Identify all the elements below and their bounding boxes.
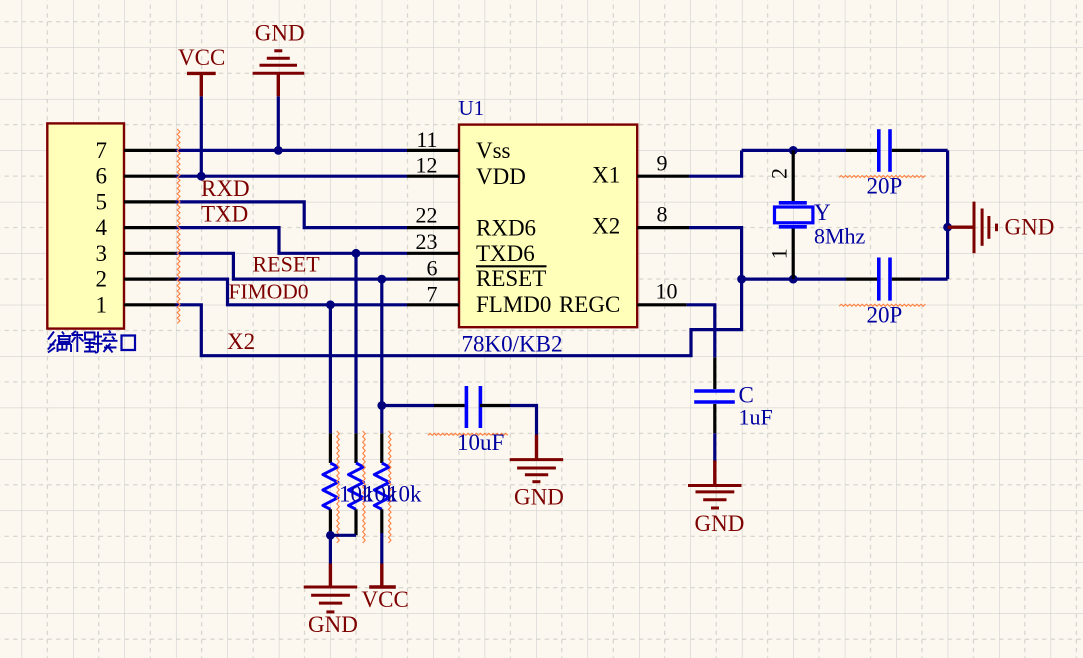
error squiggle R2 xyxy=(363,431,366,543)
error squiggle bottom 20P xyxy=(839,304,925,306)
U1 pin 9 stub X1 xyxy=(637,151,689,177)
U1 pin 8 stub X2 xyxy=(637,202,689,228)
connector pin 4 xyxy=(96,215,176,240)
wire 10uF right to GND xyxy=(510,406,537,435)
svg-text:GND: GND xyxy=(695,511,745,536)
capacitor 10uF plates xyxy=(466,386,480,428)
wire top rail left xyxy=(742,149,846,152)
svg-text:FIMOD0: FIMOD0 xyxy=(229,279,309,303)
error squiggle connector pins column xyxy=(177,129,180,323)
svg-text:7: 7 xyxy=(96,138,108,163)
junction RESET R3 xyxy=(377,275,386,284)
wire VDD net pin6 to U1.12 xyxy=(176,175,408,178)
junction top rail crystal xyxy=(789,146,798,155)
wire C to GND xyxy=(713,433,716,460)
svg-text:X1: X1 xyxy=(592,162,620,187)
wire VCC tap vertical xyxy=(200,96,203,176)
power GND symbol under 10uF xyxy=(510,435,564,482)
wire R1 bottom to GND xyxy=(329,535,332,563)
svg-text:1: 1 xyxy=(96,292,108,317)
wire 10uF branch left xyxy=(382,404,434,407)
svg-text:23: 23 xyxy=(416,229,438,254)
svg-text:VCC: VCC xyxy=(362,587,409,612)
svg-text:7: 7 xyxy=(427,282,438,307)
svg-text:11: 11 xyxy=(416,127,437,152)
error squiggle 10uF xyxy=(428,433,508,435)
svg-text:20P: 20P xyxy=(867,174,903,199)
svg-text:X2: X2 xyxy=(592,214,620,239)
svg-text:5: 5 xyxy=(96,189,108,214)
svg-text:GND: GND xyxy=(514,484,564,509)
junction bottom rail crystal xyxy=(789,275,798,284)
U1 pin 22 stub xyxy=(407,203,459,228)
error squiggle R1 xyxy=(337,431,340,543)
svg-text:3: 3 xyxy=(96,241,108,266)
capacitor C 1uF lead bottom xyxy=(713,404,716,433)
svg-text:GND: GND xyxy=(255,21,305,46)
junction TXD6 R2 xyxy=(352,249,361,258)
wire bottom rail left xyxy=(742,278,846,281)
error squiggle top 20P xyxy=(839,176,925,178)
junction bottom rail X2 xyxy=(737,275,746,284)
error squiggle R3 xyxy=(389,431,392,543)
svg-text:Y: Y xyxy=(814,200,831,225)
wire bottom rail right xyxy=(920,278,947,281)
capacitor top 20P lead right xyxy=(892,149,920,152)
svg-text:22: 22 xyxy=(416,203,438,228)
junction right rail GND xyxy=(943,223,952,232)
capacitor C 1uF plates xyxy=(694,391,735,402)
U1 pin 12 stub xyxy=(407,153,459,178)
svg-text:2: 2 xyxy=(766,168,791,179)
svg-text:X2: X2 xyxy=(227,329,255,354)
wire R2 bottom to R1 bottom xyxy=(330,534,356,537)
junction on VDD net xyxy=(197,172,206,181)
connector pin 5 xyxy=(96,189,176,214)
svg-text:9: 9 xyxy=(657,151,668,176)
connector label 编程接口 (hand drawn strokes) xyxy=(48,331,135,353)
svg-text:U1: U1 xyxy=(459,96,485,120)
U1 pin name RESET with overline xyxy=(476,266,547,291)
svg-text:VDD: VDD xyxy=(476,164,526,189)
connector pin 6 xyxy=(96,164,176,189)
svg-text:20P: 20P xyxy=(867,303,903,328)
capacitor 10uF lead right xyxy=(480,404,510,407)
svg-text:10k: 10k xyxy=(387,481,422,506)
svg-text:4: 4 xyxy=(96,215,108,240)
resistor R1 wire top (FLMD0 to R1) xyxy=(329,305,332,434)
svg-text:1: 1 xyxy=(766,248,791,259)
connector pin 2 xyxy=(96,267,176,292)
capacitor 10uF lead left xyxy=(434,404,465,407)
svg-text:RXD6: RXD6 xyxy=(476,215,536,240)
svg-text:12: 12 xyxy=(416,153,438,178)
wire right vertical rail xyxy=(946,150,949,279)
power GND symbol under C xyxy=(688,461,742,509)
resistor R3 10k xyxy=(374,433,389,533)
resistor R1 10k xyxy=(323,433,338,535)
junction R3 10uF tap xyxy=(377,401,386,410)
resistor R3 wire top (RESET to R3) xyxy=(380,279,383,433)
capacitor C? top 20P lead left xyxy=(846,149,877,152)
svg-text:RESET: RESET xyxy=(253,251,321,276)
wire top rail right xyxy=(920,149,947,152)
svg-text:RESET: RESET xyxy=(476,266,546,291)
crystal Y1 pin 2 lead xyxy=(766,150,793,202)
junction R1 bottom xyxy=(326,531,335,540)
crystal Y1 pin 1 lead xyxy=(766,227,793,279)
capacitor bottom 20P plates xyxy=(879,258,890,301)
wire RESET net pin3 to U1.6 xyxy=(176,253,408,279)
wire FLMD0 net pin2 to U1.7 xyxy=(176,279,408,305)
svg-text:8Mhz: 8Mhz xyxy=(814,224,866,249)
U1 pin 11 stub xyxy=(407,127,459,152)
wire REGC net xyxy=(687,305,715,358)
power GND symbol top xyxy=(253,51,305,97)
capacitor C 1uF lead top xyxy=(713,357,716,389)
capacitor top 20P plates xyxy=(879,129,890,172)
svg-text:10uF: 10uF xyxy=(457,430,504,455)
junction on Vss net xyxy=(274,146,283,155)
wire X1 net pin9 to top rail xyxy=(689,150,742,176)
U1 pin 23 stub xyxy=(407,229,459,254)
U1 pin 7 stub xyxy=(407,282,459,307)
svg-text:TXD: TXD xyxy=(201,201,248,226)
connector pin 3 xyxy=(96,241,176,266)
capacitor bottom 20P lead right xyxy=(892,278,920,281)
wire X2 net pin8 to bottom rail xyxy=(689,228,742,280)
svg-text:1uF: 1uF xyxy=(739,405,773,430)
resistor R2 wire top (TXD6 to R2) xyxy=(354,253,357,433)
svg-text:TXD6: TXD6 xyxy=(476,241,535,266)
svg-text:REGC: REGC xyxy=(559,292,620,317)
IC U1 box xyxy=(459,125,637,328)
svg-text:8: 8 xyxy=(657,202,668,227)
power VCC symbol bottom xyxy=(369,564,396,588)
wire TXD net pin4 to U1.23 xyxy=(176,228,408,254)
power GND symbol bottom left xyxy=(304,564,358,612)
svg-text:FLMD0: FLMD0 xyxy=(476,292,551,317)
svg-text:78K0/KB2: 78K0/KB2 xyxy=(462,332,563,357)
junction FLMD0 R1 xyxy=(326,300,335,309)
svg-text:GND: GND xyxy=(1005,214,1055,239)
connector pin 7 xyxy=(96,138,176,163)
connector pin 1 xyxy=(96,292,176,317)
svg-text:2: 2 xyxy=(96,267,108,292)
svg-text:Vss: Vss xyxy=(476,138,511,163)
svg-text:6: 6 xyxy=(427,255,438,280)
power VCC symbol top xyxy=(187,73,216,96)
crystal Y1 body xyxy=(775,203,813,227)
svg-text:RXD: RXD xyxy=(201,176,250,201)
wire X2 net pin1 to crystal xyxy=(176,279,742,356)
svg-text:VCC: VCC xyxy=(178,45,225,70)
wire R3 bottom to VCC xyxy=(380,533,383,564)
capacitor bottom 20P lead left xyxy=(846,278,877,281)
resistor values 10k 10k 10k xyxy=(339,481,422,506)
wire GND tap vertical xyxy=(277,96,280,150)
U1 pin 10 stub REGC xyxy=(637,279,687,305)
connector J1 box 编程接口 xyxy=(47,123,124,328)
power GND symbol right (rotated) xyxy=(948,202,997,254)
svg-text:10: 10 xyxy=(656,279,678,304)
svg-text:6: 6 xyxy=(96,164,108,189)
U1 pin 6 stub xyxy=(407,255,459,280)
wire RXD net pin5 to U1.22 xyxy=(176,202,408,228)
wire Vss net pin7 to U1.11 xyxy=(176,149,408,152)
resistor R2 10k xyxy=(349,433,364,535)
svg-text:GND: GND xyxy=(308,612,358,637)
